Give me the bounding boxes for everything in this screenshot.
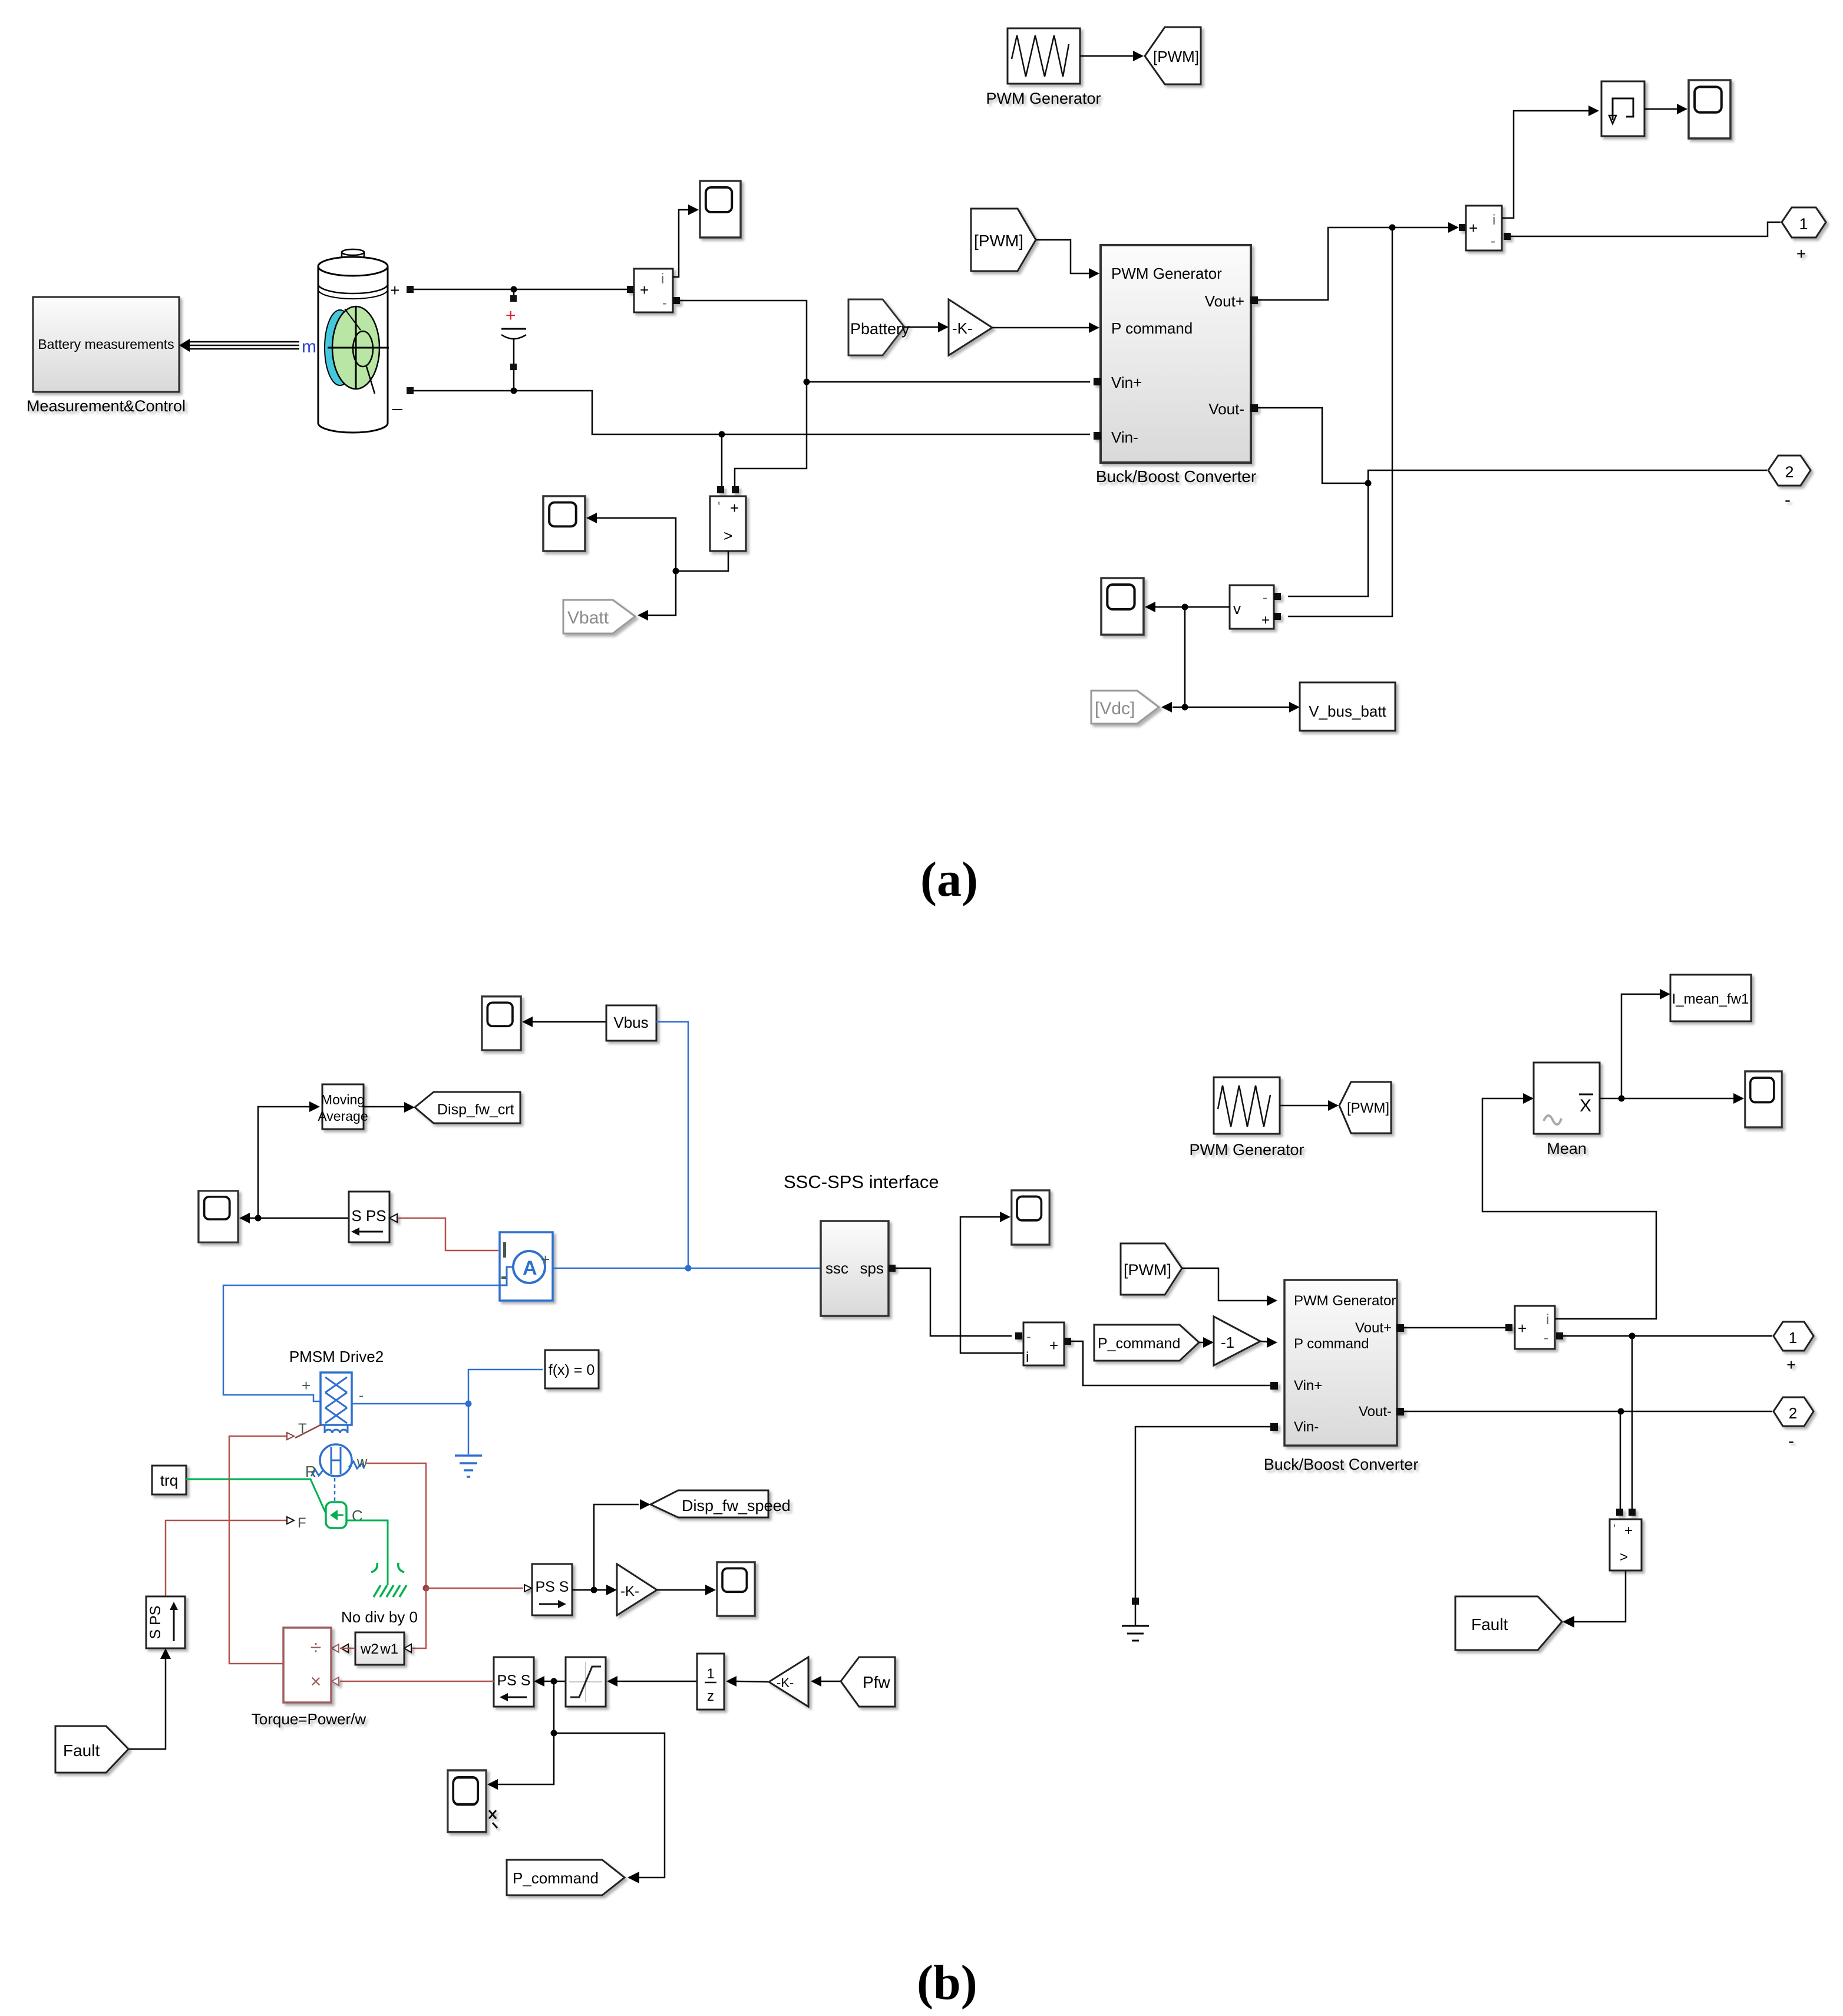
svg-text:Vin+: Vin+ bbox=[1111, 374, 1142, 391]
gain -1 bbox=[1214, 1316, 1260, 1365]
svg-text:A: A bbox=[523, 1257, 537, 1279]
wire V output to scope SC4 and Vdc node bbox=[1145, 602, 1300, 712]
converter block PS S (power command) bbox=[494, 1657, 534, 1707]
svg-text:Disp_fw_crt: Disp_fw_crt bbox=[437, 1101, 514, 1118]
svg-text:1: 1 bbox=[1789, 1329, 1797, 1347]
wire sps output to sensor B3 minus bbox=[896, 1268, 1012, 1336]
wire trq to clamp C (green) bbox=[186, 1479, 326, 1513]
from tag [PWM] B bbox=[1121, 1243, 1182, 1295]
wire Pfw to gain B2 bbox=[811, 1676, 841, 1687]
current sensor A2 (+ i -) bbox=[1459, 206, 1511, 250]
svg-text:trq: trq bbox=[160, 1471, 178, 1489]
svg-text:2: 2 bbox=[1789, 1404, 1797, 1422]
label SSC-SPS interface bbox=[784, 1172, 939, 1192]
svg-text:Buck/Boost Converter: Buck/Boost Converter bbox=[1264, 1456, 1419, 1473]
svg-text:[PWM]: [PWM] bbox=[974, 232, 1023, 250]
scope SC8 bbox=[717, 1562, 755, 1616]
svg-text:1: 1 bbox=[706, 1666, 714, 1682]
svg-text:-1: -1 bbox=[1221, 1334, 1234, 1351]
wire P_command to gain -1 bbox=[1199, 1337, 1214, 1348]
svg-text:f(x) = 0: f(x) = 0 bbox=[549, 1362, 595, 1378]
svg-text:v: v bbox=[1233, 600, 1241, 618]
goto tag Fault B bbox=[1455, 1596, 1562, 1650]
label No div by 0 bbox=[341, 1608, 418, 1626]
svg-text:Vin-: Vin- bbox=[1294, 1419, 1319, 1435]
wire Vbus to scope SC5 bbox=[522, 1017, 606, 1027]
svg-text:Vout-: Vout- bbox=[1359, 1404, 1392, 1420]
wire PS S output to gain and Disp_fw_speed bbox=[572, 1499, 650, 1595]
svg-text:-K-: -K- bbox=[952, 319, 973, 337]
voltage check block B (' + >) bbox=[1610, 1509, 1641, 1570]
svg-text:Vout+: Vout+ bbox=[1355, 1320, 1392, 1336]
wire physical S-PS to ammeter I bbox=[398, 1218, 498, 1250]
voltage measurement block V bbox=[1230, 585, 1281, 629]
svg-text:PWM Generator: PWM Generator bbox=[1189, 1141, 1304, 1159]
svg-text:-: - bbox=[1544, 1330, 1548, 1346]
wire gain -1 to P command port bbox=[1260, 1337, 1277, 1348]
ground B (black) bbox=[1122, 1605, 1149, 1641]
svg-text:P command: P command bbox=[1294, 1336, 1369, 1352]
svg-text:SSC-SPS interface: SSC-SPS interface bbox=[784, 1172, 939, 1192]
block 1/z bbox=[697, 1654, 724, 1710]
svg-text:i: i bbox=[1546, 1312, 1549, 1328]
wire sensor A1 i output to scope bbox=[673, 204, 699, 277]
gain -K- A bbox=[949, 299, 992, 355]
svg-text:Moving: Moving bbox=[321, 1092, 365, 1107]
outport 2 A bbox=[1768, 456, 1811, 510]
svg-text:P_command: P_command bbox=[513, 1869, 599, 1887]
svg-text:-: - bbox=[1785, 490, 1791, 510]
scope SC6 bbox=[199, 1191, 238, 1242]
wire clamp C to mechanical ground (green) bbox=[346, 1520, 388, 1568]
svg-text:C: C bbox=[352, 1507, 363, 1525]
svg-text:+: + bbox=[390, 281, 399, 299]
svg-text:-: - bbox=[1263, 590, 1267, 606]
wire ammeter output (blue) to ssc bbox=[553, 1268, 821, 1269]
block V_bus_batt bbox=[1300, 682, 1395, 731]
wire sensor B3 plus to Vin+ B bbox=[1071, 1341, 1270, 1385]
divide block Torque=Power/w bbox=[252, 1628, 366, 1728]
svg-text:S PS: S PS bbox=[351, 1207, 386, 1225]
svg-text:PMSM Drive2: PMSM Drive2 bbox=[289, 1348, 384, 1365]
svg-text:F: F bbox=[298, 1515, 306, 1531]
wire Vout+ A to current sensor A2 bbox=[1258, 222, 1459, 300]
svg-text:[PWM]: [PWM] bbox=[1124, 1261, 1171, 1279]
svg-text:i: i bbox=[661, 271, 664, 287]
svg-text:Measurement&Control: Measurement&Control bbox=[27, 397, 186, 415]
svg-text:+: + bbox=[1796, 245, 1806, 263]
wire Fault tag to S PS bbox=[128, 1648, 171, 1749]
wire ammeter minus to PMSM plus (blue) bbox=[223, 1285, 500, 1401]
wire Moving Average to Disp_fw_crt bbox=[364, 1102, 415, 1113]
svg-text:': ' bbox=[1613, 1522, 1616, 1536]
wire sensor A2 i output to memory bbox=[1502, 105, 1599, 218]
wire [PWM] to PWM Generator port bbox=[1036, 240, 1099, 279]
wire sensor A2 out to outport 1 bbox=[1511, 222, 1781, 236]
svg-text:Vin+: Vin+ bbox=[1294, 1378, 1322, 1394]
svg-text:+: + bbox=[302, 1377, 311, 1394]
svg-text:-: - bbox=[1026, 1329, 1031, 1345]
svg-text:Average: Average bbox=[318, 1108, 368, 1124]
subsystem ssc-sps bbox=[821, 1221, 896, 1316]
svg-text:Vout-: Vout- bbox=[1208, 400, 1244, 418]
wire voltage check output to scope and Vbatt bbox=[586, 513, 728, 621]
electrical reference ground (blue) bbox=[455, 1456, 482, 1477]
gain -K- B1 bbox=[617, 1564, 657, 1615]
svg-text:+: + bbox=[1261, 612, 1270, 628]
scope SC7 bbox=[1012, 1190, 1049, 1245]
svg-text:Battery measurements: Battery measurements bbox=[38, 336, 174, 352]
wire gain B1 to scope SC8 bbox=[657, 1585, 716, 1595]
svg-text:[PWM]: [PWM] bbox=[1153, 48, 1199, 65]
from tag [PWM] A bbox=[971, 209, 1036, 271]
svg-text:-: - bbox=[359, 1388, 364, 1404]
svg-text:sps: sps bbox=[860, 1259, 884, 1277]
svg-text:Vbus: Vbus bbox=[613, 1014, 648, 1031]
wire node1 B down to voltage check B bbox=[1631, 1336, 1633, 1509]
wire saturation to PS S (P_command net) bbox=[487, 1676, 665, 1883]
wire sensor B2 i to Mean bbox=[1482, 1093, 1656, 1319]
motor inertia symbol (blue) bbox=[311, 1444, 364, 1502]
svg-text:-: - bbox=[1788, 1431, 1794, 1451]
svg-text:Vbatt: Vbatt bbox=[567, 608, 609, 628]
wire sensor B3 i to scope SC7 bbox=[960, 1212, 1023, 1353]
caption (b) bbox=[917, 1955, 977, 2010]
svg-text:÷: ÷ bbox=[311, 1636, 322, 1659]
svg-text:No div by 0: No div by 0 bbox=[341, 1608, 418, 1626]
svg-text:1: 1 bbox=[1799, 215, 1808, 233]
svg-text:i: i bbox=[1492, 212, 1495, 228]
svg-text:R: R bbox=[305, 1463, 316, 1480]
converter block PS S (speed readout) bbox=[524, 1564, 572, 1615]
wire Pbattery to gain bbox=[904, 322, 949, 332]
svg-text:+: + bbox=[1624, 1523, 1633, 1539]
torque source clamp C (green) bbox=[326, 1502, 363, 1528]
subsystem Buck/Boost Converter B bbox=[1264, 1280, 1419, 1473]
PWM Generator source block B bbox=[1189, 1077, 1304, 1159]
wire divide output to T input bbox=[229, 1433, 294, 1664]
svg-text:PWM Generator: PWM Generator bbox=[1294, 1293, 1396, 1309]
wire w output (physical) to PS S and w1 bbox=[365, 1463, 523, 1648]
svg-text:_: _ bbox=[392, 391, 403, 411]
svg-text:+: + bbox=[541, 1250, 550, 1268]
from tag Pfw bbox=[841, 1657, 895, 1707]
svg-text:w: w bbox=[356, 1454, 368, 1470]
svg-text:-K-: -K- bbox=[620, 1583, 639, 1599]
wire node2 B down to voltage check B bbox=[1620, 1411, 1621, 1509]
wire Vout+ B to sensor B2 bbox=[1404, 1327, 1505, 1329]
battery - terminal bbox=[392, 387, 414, 411]
svg-text:PS S: PS S bbox=[497, 1672, 531, 1689]
svg-text:P command: P command bbox=[1111, 319, 1193, 337]
svg-text:+: + bbox=[730, 499, 739, 517]
measurement bus wire m bbox=[179, 339, 299, 352]
from tag P_command B bbox=[1094, 1325, 1199, 1361]
svg-text:>: > bbox=[724, 527, 732, 545]
scope SC10 bbox=[1745, 1071, 1782, 1127]
wire S PS fault to F input bbox=[166, 1515, 306, 1596]
scope SC4 bbox=[1101, 578, 1144, 635]
PWM Generator source block A bbox=[986, 28, 1101, 107]
svg-text:Disp_fw_speed: Disp_fw_speed bbox=[682, 1497, 791, 1515]
wire 1/z to saturation bbox=[607, 1676, 697, 1687]
wire [PWM] B to PWM Generator port bbox=[1182, 1268, 1277, 1306]
svg-text:P_command: P_command bbox=[1098, 1335, 1180, 1352]
block trq bbox=[152, 1466, 186, 1494]
svg-text:+: + bbox=[1786, 1356, 1796, 1374]
node T label and link bbox=[295, 1421, 322, 1438]
svg-text:I_mean_fw1: I_mean_fw1 bbox=[1672, 991, 1749, 1007]
current sensor B3 (- i +) bbox=[1015, 1322, 1071, 1365]
svg-text:PWM Generator: PWM Generator bbox=[986, 90, 1101, 107]
wire memory to scope SC3 bbox=[1644, 104, 1687, 114]
voltage check block A (' + >) bbox=[710, 486, 746, 551]
PMSM Drive2 electrical block (blue) bbox=[302, 1372, 364, 1433]
scope SC5 bbox=[482, 997, 521, 1050]
svg-text:S PS: S PS bbox=[147, 1606, 164, 1639]
wire Vout- B to outport 2 B bbox=[1404, 1408, 1772, 1415]
ammeter block (current sensor fw) bbox=[500, 1232, 553, 1301]
outport 1 B bbox=[1773, 1322, 1814, 1374]
current sensor B2 (+ i -) bbox=[1505, 1306, 1563, 1349]
svg-text:Fault: Fault bbox=[63, 1741, 100, 1760]
caption (a) bbox=[920, 852, 978, 907]
svg-text:+: + bbox=[640, 281, 649, 299]
from tag Pbattery bbox=[848, 299, 910, 355]
svg-text:Mean: Mean bbox=[1547, 1140, 1587, 1157]
block Mean bbox=[1534, 1063, 1600, 1157]
svg-text:': ' bbox=[718, 499, 721, 515]
svg-text:-: - bbox=[662, 295, 667, 311]
scope SC2 bbox=[543, 496, 585, 551]
wire w2 to divide input bbox=[332, 1644, 355, 1652]
svg-text:-: - bbox=[1491, 233, 1495, 249]
wire PWM generator B to goto tag bbox=[1280, 1100, 1339, 1111]
wire sensor B2 minus out to outport 1 B bbox=[1563, 1333, 1772, 1339]
svg-text:2: 2 bbox=[1785, 463, 1794, 481]
saturation block bbox=[566, 1657, 606, 1707]
svg-text:PS S: PS S bbox=[536, 1579, 569, 1595]
wire Vbus tap (blue) bbox=[656, 1022, 692, 1272]
PMSM Drive2 label bbox=[289, 1348, 384, 1365]
goto tag Disp_fw_crt bbox=[415, 1092, 520, 1123]
wire Vout- A to outport 2 bbox=[1258, 408, 1767, 487]
battery icon (Battery block) bbox=[318, 249, 389, 433]
wire sensor A1 out to Vin+ and voltage check bbox=[680, 301, 1090, 486]
wire PWM generator to goto tag bbox=[1080, 51, 1144, 61]
converter block S PS (speed) bbox=[349, 1192, 397, 1242]
gain -K- B2 (left pointing) bbox=[769, 1657, 808, 1707]
block w2 w1 bbox=[341, 1632, 411, 1665]
converter block S PS (fault, rotated) bbox=[146, 1596, 185, 1648]
mechanical ground (green) bbox=[371, 1563, 407, 1597]
wire Mean to scope SC10 and I_mean_fw1 bbox=[1600, 989, 1744, 1104]
scope SC9 bbox=[448, 1770, 497, 1832]
svg-text:+: + bbox=[1469, 219, 1478, 237]
wire Vin- B to ground bbox=[1132, 1427, 1270, 1605]
node w label bbox=[356, 1454, 368, 1470]
wire trunk Vout+ down to V measurement plus bbox=[1288, 227, 1392, 616]
wire PMSM minus (blue) to f(x)=0 and ground bbox=[352, 1370, 543, 1454]
node m label bbox=[302, 337, 316, 357]
node R label bbox=[305, 1463, 316, 1480]
block I_mean_fw1 bbox=[1670, 975, 1751, 1021]
svg-text:m: m bbox=[302, 337, 316, 357]
svg-text:-K-: -K- bbox=[777, 1675, 794, 1690]
svg-text:ssc: ssc bbox=[825, 1259, 848, 1277]
svg-text:Buck/Boost Converter: Buck/Boost Converter bbox=[1096, 467, 1256, 486]
subsystem Measurement&Control (Battery measurements) bbox=[27, 297, 186, 415]
svg-text:+: + bbox=[506, 306, 516, 325]
svg-text:(a): (a) bbox=[920, 852, 978, 907]
capacitor branch bbox=[501, 289, 526, 394]
svg-text:w1: w1 bbox=[379, 1641, 398, 1657]
goto tag [PWM] A bbox=[1145, 27, 1201, 84]
svg-text:Torque=Power/w: Torque=Power/w bbox=[252, 1710, 366, 1728]
wire battery+ to current sensor bbox=[414, 286, 627, 293]
svg-text:Pbattery: Pbattery bbox=[850, 320, 910, 338]
scope SC1 bbox=[700, 181, 741, 237]
svg-text:Fault: Fault bbox=[1471, 1615, 1508, 1634]
outport 2 B bbox=[1773, 1397, 1814, 1451]
block Moving Average bbox=[318, 1084, 368, 1129]
wire gain B2 to 1/z bbox=[726, 1676, 769, 1687]
wire voltage check B to Fault tag bbox=[1563, 1570, 1626, 1628]
wire S-PS output to scope SC6 and Moving Average bbox=[239, 1101, 349, 1223]
from tag Fault A bbox=[55, 1726, 128, 1773]
svg-text:PWM Generator: PWM Generator bbox=[1111, 265, 1222, 282]
svg-text:w2: w2 bbox=[360, 1641, 379, 1657]
svg-text:i: i bbox=[1026, 1350, 1029, 1365]
svg-text:V_bus_batt: V_bus_batt bbox=[1309, 702, 1386, 720]
subsystem Buck/Boost Converter A bbox=[1094, 245, 1258, 486]
svg-text:Vin-: Vin- bbox=[1111, 428, 1138, 446]
svg-text:>: > bbox=[1620, 1549, 1628, 1565]
goto tag Vbatt bbox=[563, 600, 635, 633]
block Vbus bbox=[606, 1005, 656, 1041]
current sensor A1 (+ i -) bbox=[627, 269, 680, 312]
svg-text:Pfw: Pfw bbox=[863, 1673, 890, 1691]
goto tag Disp_fw_speed bbox=[650, 1490, 791, 1517]
svg-text:[PWM]: [PWM] bbox=[1347, 1100, 1389, 1116]
svg-text:X: X bbox=[1580, 1096, 1591, 1116]
svg-text:z: z bbox=[707, 1688, 714, 1704]
wire node2 down to V measurement minus bbox=[1288, 483, 1368, 596]
svg-text:×: × bbox=[311, 1671, 322, 1692]
block f(x)=0 bbox=[545, 1350, 599, 1388]
svg-text:Vout+: Vout+ bbox=[1205, 292, 1244, 310]
wire battery- (Vin- net) bbox=[414, 391, 1090, 438]
memory block bbox=[1601, 81, 1644, 136]
goto tag P_command bbox=[507, 1860, 625, 1895]
wire PS S output (physical) to multiply input bbox=[340, 1681, 494, 1682]
svg-text:(b): (b) bbox=[917, 1955, 977, 2010]
svg-text:+: + bbox=[1049, 1337, 1058, 1354]
wire gain to P command bbox=[992, 322, 1099, 333]
svg-text:+: + bbox=[1518, 1319, 1527, 1337]
goto tag [Vdc] bbox=[1091, 691, 1159, 724]
battery + terminal bbox=[390, 281, 414, 299]
goto tag [PWM] B bbox=[1339, 1082, 1391, 1133]
scope SC3 bbox=[1689, 80, 1730, 138]
outport 1 A bbox=[1782, 207, 1826, 263]
svg-text:[Vdc]: [Vdc] bbox=[1095, 699, 1135, 718]
